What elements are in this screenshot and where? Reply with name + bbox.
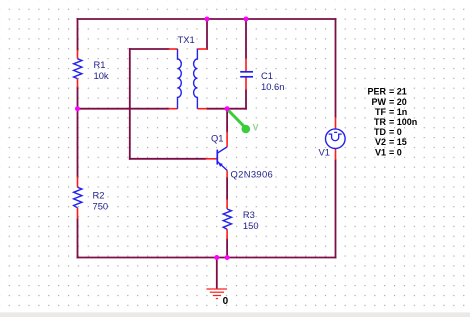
- svg-text:= 0: = 0: [389, 147, 402, 157]
- svg-text:10k: 10k: [94, 70, 109, 81]
- svg-text:TF: TF: [375, 107, 386, 117]
- svg-text:750: 750: [93, 200, 109, 211]
- svg-text:V: V: [253, 123, 259, 133]
- svg-text:R3: R3: [243, 209, 255, 220]
- svg-text:= 15: = 15: [389, 137, 407, 147]
- svg-text:150: 150: [243, 220, 259, 231]
- svg-text:V2: V2: [375, 137, 386, 147]
- svg-text:PW: PW: [372, 97, 387, 107]
- svg-text:PER: PER: [367, 87, 386, 97]
- svg-text:Q1: Q1: [211, 133, 224, 144]
- svg-text:= 1n: = 1n: [389, 107, 407, 117]
- svg-text:= 0: = 0: [389, 127, 402, 137]
- svg-text:V1: V1: [375, 147, 386, 157]
- svg-text:TR: TR: [374, 117, 386, 127]
- svg-text:= 100n: = 100n: [389, 117, 417, 127]
- svg-text:C1: C1: [261, 70, 273, 81]
- svg-text:R2: R2: [93, 189, 105, 200]
- svg-text:10.6n: 10.6n: [261, 81, 284, 92]
- svg-text:0: 0: [223, 296, 229, 307]
- svg-text:= 21: = 21: [389, 87, 407, 97]
- svg-text:V1: V1: [319, 146, 330, 157]
- svg-text:TX1: TX1: [178, 34, 195, 45]
- svg-text:R1: R1: [94, 59, 106, 70]
- svg-text:Q2N3906: Q2N3906: [231, 168, 274, 179]
- svg-text:TD: TD: [374, 127, 386, 137]
- svg-text:= 20: = 20: [389, 97, 407, 107]
